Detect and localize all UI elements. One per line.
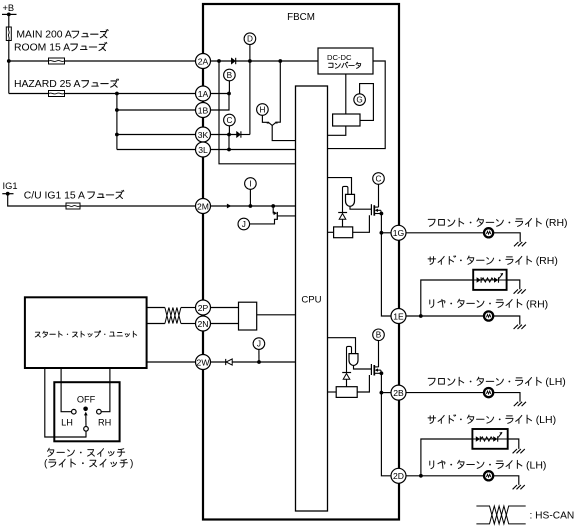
node 2B tap	[380, 391, 384, 395]
wire DC-DC bottom to coil	[345, 74, 347, 114]
wire driver1 feedback hook	[343, 186, 348, 212]
wire CPU to driver2 input	[328, 338, 356, 354]
contact wiper	[84, 427, 89, 432]
wire 1B rail inside	[211, 94, 230, 111]
wire driver1 output to gate	[350, 206, 371, 209]
node 2A-b	[248, 59, 252, 63]
wire B to drain	[378, 341, 380, 368]
wire 2N inside	[211, 323, 239, 325]
node 2M-a	[249, 204, 253, 208]
wire 1E to rear lamp RH	[406, 315, 484, 317]
wire side RH to ground	[507, 280, 520, 289]
zener diode D5	[342, 372, 351, 374]
svg-text:2N: 2N	[198, 319, 209, 329]
wire unit to RH contact	[102, 368, 110, 412]
zener diode D4	[338, 212, 347, 214]
diode on 2A rail	[231, 58, 235, 64]
svg-text:(RH): (RH)	[545, 217, 567, 229]
wire D stub	[249, 45, 251, 62]
gate driver U3	[346, 194, 355, 206]
lamp rear RH	[484, 311, 493, 320]
lamp rear LH	[484, 471, 493, 480]
svg-text:2W: 2W	[197, 357, 211, 367]
node 1G tap	[380, 231, 384, 235]
svg-text:): )	[130, 458, 133, 469]
svg-text:ROOM 15 A: ROOM 15 A	[14, 42, 70, 53]
wire rear LH to ground	[493, 476, 519, 485]
fuse ROOM 15A	[49, 58, 65, 64]
LED unit side RH	[473, 270, 506, 290]
label MAIN 200A fuse	[16, 30, 108, 41]
wire 2B to front lamp LH	[406, 392, 484, 394]
wire unit to LH contact	[61, 368, 71, 412]
svg-text:C/U IG1 15 A: C/U IG1 15 A	[24, 190, 85, 201]
svg-text:(RH): (RH)	[536, 255, 558, 267]
node G callout	[354, 94, 366, 106]
LED unit side LH	[472, 429, 507, 449]
HS-CAN twisted pair legend	[476, 506, 574, 524]
pin 1A	[196, 86, 211, 101]
node J2 tap	[257, 360, 261, 364]
svg-text:2M: 2M	[197, 201, 209, 211]
pin 3K	[196, 127, 211, 142]
svg-text:1A: 1A	[198, 89, 209, 99]
wire front RH to ground	[493, 233, 520, 242]
wire R1 to CPU	[328, 231, 334, 233]
pin 2P	[196, 300, 211, 315]
svg-text:3L: 3L	[198, 145, 208, 155]
node 3K feed	[115, 133, 119, 137]
pin 2D	[391, 468, 406, 483]
ground front RH	[514, 242, 518, 246]
turn switch box	[54, 382, 119, 441]
fuse HAZARD 25A	[49, 91, 65, 97]
ground front LH	[514, 402, 518, 406]
svg-text:B: B	[376, 331, 382, 340]
wire front LH to ground	[493, 393, 520, 402]
lamp front RH	[484, 228, 493, 237]
wire side RH feed	[421, 280, 473, 316]
svg-text:C: C	[226, 116, 232, 125]
label front turn light RH	[428, 217, 567, 229]
node 1A junction	[227, 92, 231, 96]
wire 1G to front lamp RH	[406, 232, 484, 234]
label ROOM 15A fuse	[14, 42, 107, 53]
pin 1G	[391, 225, 406, 240]
svg-text:2P: 2P	[198, 303, 209, 313]
wire I stub	[249, 189, 251, 206]
MOSFET Q3	[370, 204, 372, 215]
node 2M-b	[271, 204, 275, 208]
wire 2P inside	[211, 307, 239, 309]
wire J2 stub	[258, 349, 260, 362]
lamp front LH	[484, 388, 493, 397]
resistor R1	[334, 227, 353, 238]
node H callout	[257, 104, 269, 116]
wire rear RH to ground	[493, 316, 520, 325]
wire HAZARD rail to 1A	[9, 93, 196, 95]
ground rear LH	[513, 485, 517, 489]
wire 3K rail inside	[211, 134, 237, 136]
node B callout	[224, 69, 236, 81]
wire zener2 to resistor	[346, 379, 348, 387]
svg-text:HAZARD 25 A: HAZARD 25 A	[14, 79, 80, 90]
contact LH	[72, 409, 77, 414]
wire to 1G	[381, 232, 391, 234]
svg-text:G: G	[356, 95, 362, 104]
start-stop unit box	[25, 297, 147, 368]
svg-text:MAIN 200 A: MAIN 200 A	[16, 30, 72, 41]
svg-text:2D: 2D	[393, 471, 404, 481]
wire to 2B	[381, 392, 391, 394]
node side RH tap	[419, 314, 423, 318]
svg-text:1B: 1B	[198, 105, 209, 115]
wire CPU to driver1 input	[328, 178, 352, 195]
svg-text:3K: 3K	[198, 130, 209, 140]
svg-text:1E: 1E	[393, 311, 404, 321]
fuse MAIN 200A (vertical)	[6, 27, 11, 41]
wire HAZARD branch down	[116, 94, 118, 150]
wire wiper bottom	[85, 431, 87, 437]
svg-text:(RH): (RH)	[526, 298, 548, 310]
svg-text:J: J	[257, 339, 261, 348]
wire Q3 source down to 1E	[381, 214, 391, 317]
wire Q1 emitter to CPU	[272, 125, 295, 140]
node C callout	[224, 114, 236, 126]
label rear turn light RH	[430, 298, 548, 310]
pin 1B	[196, 103, 211, 118]
wire driver2 output to gate	[354, 366, 372, 369]
pin 2B	[391, 385, 406, 400]
svg-text:J: J	[242, 220, 246, 229]
transistor Q1 collector wire	[275, 61, 280, 122]
svg-text:I: I	[249, 179, 251, 188]
svg-text:: HS-CAN: : HS-CAN	[530, 510, 575, 521]
wire 2N twisted pair	[147, 323, 165, 325]
transistor Q2 base bar	[276, 212, 278, 220]
wire H base stub	[262, 115, 269, 122]
node Q3 source	[380, 212, 384, 216]
wire ROOM rail to 2A	[9, 60, 196, 62]
wire 2W from unit	[147, 361, 196, 363]
label rear turn light LH	[430, 459, 547, 471]
wire R2 to source	[357, 375, 369, 392]
wire unit to wiper	[45, 368, 87, 437]
wire C stub	[228, 126, 230, 135]
wire 2M rail to CPU	[211, 205, 296, 207]
wire 3K diode to D-line	[241, 134, 250, 136]
svg-text:FBCM: FBCM	[287, 12, 315, 23]
pin 1E	[391, 309, 406, 324]
DC-DC converter U2	[318, 48, 373, 74]
svg-text:RH: RH	[98, 418, 111, 428]
wire 2P twisted pair	[147, 307, 165, 309]
pin 2A	[196, 54, 211, 69]
node J2 callout	[253, 338, 265, 350]
pin 2N	[196, 316, 211, 331]
ground rear RH	[514, 325, 518, 329]
wire +B down to ROOM node	[8, 41, 10, 94]
node J callout	[238, 218, 250, 230]
svg-text:IG1: IG1	[3, 181, 18, 191]
contact RH	[97, 409, 102, 414]
node 1B feed	[115, 108, 119, 112]
wire to 1B	[117, 109, 196, 111]
gate driver U4	[349, 354, 358, 366]
wire IG1 to 2M	[8, 194, 196, 206]
svg-text:(LH): (LH)	[545, 376, 565, 388]
svg-text:CPU: CPU	[301, 294, 321, 305]
svg-text:(LH): (LH)	[526, 459, 546, 471]
diode D6 on 2W	[226, 359, 232, 365]
wire 2D to rear lamp LH	[406, 475, 484, 477]
pin 2M	[196, 199, 211, 214]
node side LH tap	[419, 474, 423, 478]
wire DC-DC out right to CPU	[328, 61, 386, 149]
node Q4 source	[380, 371, 384, 375]
wire driver2 feedback hook	[347, 346, 352, 372]
label side turn light LH	[428, 414, 556, 426]
resistor R2	[336, 387, 357, 398]
svg-text:(LH): (LH)	[536, 414, 556, 426]
svg-text:+B: +B	[3, 3, 15, 13]
node B callout drain	[373, 329, 385, 341]
wire R1 to source	[353, 215, 370, 232]
wire R2 to CPU	[328, 391, 337, 393]
diode on 3K rail	[237, 131, 241, 137]
node 2A-a	[217, 59, 221, 63]
wire C to drain	[378, 184, 380, 207]
label turn switch	[44, 448, 133, 469]
svg-text:H: H	[259, 105, 265, 114]
wire side LH to ground	[508, 439, 519, 449]
relay coil L1	[333, 114, 360, 126]
wire 2A sense down-right to CPU	[219, 61, 296, 164]
wire Q2 collector to J	[250, 219, 278, 224]
wire +B down	[8, 14, 10, 27]
svg-text:2B: 2B	[393, 388, 404, 398]
wire zener to resistor	[342, 219, 344, 227]
svg-text:1G: 1G	[393, 228, 405, 238]
label C/U IG1 15A fuse	[24, 190, 124, 201]
label front turn light LH	[428, 376, 566, 388]
label HAZARD 25A fuse	[14, 79, 119, 90]
node I callout	[245, 178, 257, 190]
wire 3L rail to CPU	[211, 149, 296, 151]
svg-text:LH: LH	[61, 418, 73, 428]
wire to 3K	[117, 134, 196, 136]
wire 2W rail inside	[211, 361, 296, 363]
node C callout drain	[373, 173, 385, 185]
svg-text:DC-DC: DC-DC	[327, 53, 352, 62]
MOSFET Q4	[370, 364, 372, 375]
pin 2W	[196, 355, 211, 370]
wire G loop	[360, 84, 374, 121]
node 2A-c	[278, 59, 282, 63]
CPU block	[296, 86, 328, 511]
contact OFF	[83, 407, 88, 412]
wire 1A rail inside	[211, 93, 230, 95]
ground side LH	[513, 449, 517, 453]
svg-text:D: D	[247, 35, 253, 44]
node 3L junction	[227, 148, 231, 152]
wire CAN to CPU	[257, 314, 296, 316]
wire 3K to 3L link	[228, 135, 230, 150]
wire Q4 source down to 2D	[381, 373, 391, 476]
node HAZARD branch	[115, 92, 119, 96]
fuse C/U IG1 15A	[66, 203, 80, 209]
transistor Q1 emitter arrow	[269, 122, 276, 125]
svg-text:C: C	[376, 174, 382, 183]
transistor Q2 emitter arrow	[274, 211, 277, 215]
node D callout	[244, 33, 256, 45]
wire side LH feed	[421, 439, 473, 476]
+B supply terminal	[2, 3, 17, 16]
FBCM module box	[203, 4, 399, 520]
svg-text:OFF: OFF	[77, 394, 96, 404]
svg-text:B: B	[227, 71, 233, 80]
label side turn light RH	[428, 255, 558, 267]
wire D-line down to 3K diode	[249, 61, 251, 135]
ground side RH	[514, 289, 518, 293]
wire coil bottom to CPU	[328, 126, 346, 135]
wire Q2 base to CPU	[277, 215, 295, 217]
CAN transceiver U5	[239, 302, 257, 330]
IG1 supply terminal	[2, 181, 17, 196]
svg-text:2A: 2A	[198, 56, 209, 66]
node 3K junction	[227, 133, 231, 137]
node ROOM feed	[7, 59, 11, 63]
wire to 3L	[117, 149, 196, 151]
wire B stub	[228, 81, 230, 94]
transistor Q2 emitter wire	[273, 206, 274, 213]
switch wiper arm	[85, 414, 87, 427]
pin 3L	[196, 142, 211, 157]
wire 2A rail to DC-DC	[211, 60, 319, 62]
arrow 2M direction	[227, 204, 232, 209]
